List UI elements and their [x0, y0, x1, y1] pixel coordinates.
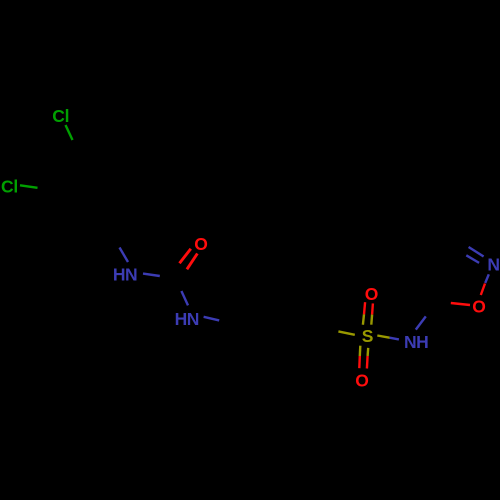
- bond N3-C5isox (N half): [416, 316, 426, 329]
- bond Cl1-ring (Cl half): [66, 125, 73, 140]
- bond N1-C(urea) (N half): [143, 274, 160, 276]
- svg-text:O: O: [355, 371, 369, 391]
- isoxazole O-C5 (O half): [451, 303, 470, 305]
- svg-text:Cl: Cl: [52, 106, 69, 126]
- S=O top line1 O half: [364, 302, 365, 314]
- isoxazole N-O (O half): [481, 284, 485, 296]
- svg-text:Cl: Cl: [1, 176, 18, 196]
- svg-text:O: O: [365, 284, 379, 304]
- double bond C=O line2 (O half): [187, 254, 198, 270]
- S=O top line2 S half: [370, 315, 373, 325]
- bond Cl2-ring (Cl half): [20, 185, 38, 188]
- svg-text:O: O: [472, 297, 486, 317]
- svg-text:O: O: [194, 234, 208, 254]
- S=O top line2 O half: [371, 303, 374, 314]
- bond N2-ring (N half): [204, 317, 220, 321]
- svg-text:N: N: [487, 254, 500, 274]
- bond S-N3 (N half): [390, 338, 399, 340]
- svg-text:S: S: [362, 326, 374, 346]
- isoxazole C3=N line1 (N half): [469, 247, 484, 257]
- S=O bottom line1 O half: [358, 356, 361, 368]
- double bond C=O line1 (O half): [180, 249, 191, 264]
- bond S-N3 (S half): [377, 336, 389, 338]
- bond C(urea)-N2 (N half): [181, 291, 188, 305]
- isoxazole N-O (N half): [485, 274, 489, 283]
- svg-text:HN: HN: [113, 264, 138, 284]
- bond ring-S (S half): [338, 331, 354, 334]
- bond ring-N1 (N half): [120, 248, 129, 263]
- isoxazole C3=N line2 (N half): [466, 255, 479, 263]
- S=O bottom line2 S half: [366, 348, 369, 356]
- svg-text:NH: NH: [404, 332, 429, 352]
- S=O bottom line1 S half: [359, 346, 362, 356]
- S=O top line1 S half: [363, 314, 364, 324]
- svg-text:HN: HN: [175, 309, 200, 329]
- S=O bottom line2 O half: [366, 356, 369, 369]
